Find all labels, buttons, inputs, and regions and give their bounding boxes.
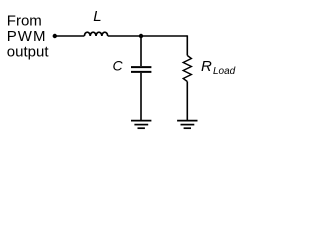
wire: input to inductor [55,35,85,37]
wire: top corner down to resistor [186,35,188,55]
wire: resistor to ground [186,82,188,121]
svg-text:C: C [113,57,124,73]
svg-text:output: output [7,44,50,61]
node: junction dot [139,34,143,38]
ground (right, under R_Load) [177,121,197,129]
node: From PWM output label [7,13,50,61]
wire: capacitor to ground [140,73,142,120]
wire: junction down to capacitor [140,36,142,66]
label R_Load [201,58,236,77]
wire: inductor to junction to right corner [108,35,188,37]
ground (left, under C) [131,121,151,129]
capacitor C [131,67,151,72]
svg-text:L: L [93,8,101,25]
svg-text:R: R [201,58,212,75]
node: input terminal dot [53,34,57,38]
resistor R_Load [183,56,191,82]
svg-text:Load: Load [213,66,236,77]
svg-text:From: From [7,13,42,30]
inductor L [84,32,107,36]
